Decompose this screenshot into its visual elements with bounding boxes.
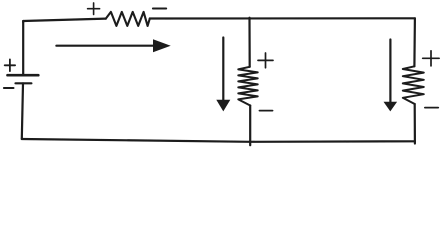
wire middle branch lower <box>249 106 251 146</box>
battery V1 negative stem wire <box>22 83 23 139</box>
current arrow I3 (right, downward) <box>384 40 398 112</box>
resistor R2 <box>238 67 257 106</box>
current arrow I <box>56 39 170 52</box>
label + of R1 <box>88 3 100 15</box>
label - of R2 <box>260 110 273 112</box>
label - of R3 <box>425 107 438 109</box>
label + of R3 <box>423 51 439 66</box>
resistor R3 <box>403 66 424 104</box>
current arrow I2 (middle, downward) <box>216 38 230 112</box>
battery V1 long plate <box>8 74 39 77</box>
label + of battery <box>5 59 15 71</box>
wire top from R1 to right corner <box>150 17 415 19</box>
label + of R2 <box>258 53 273 68</box>
label - of battery <box>4 87 14 89</box>
wire middle branch upper <box>248 18 250 67</box>
wire right branch upper <box>413 18 416 66</box>
resistor R1 <box>106 12 150 26</box>
wire bottom <box>22 139 415 142</box>
battery V1 positive stem wire <box>22 21 24 74</box>
label - of R1 <box>153 8 166 10</box>
wire top-left from battery to resistor R1 <box>23 19 106 22</box>
battery V1 short plate <box>16 82 32 84</box>
wire right branch lower <box>414 104 416 144</box>
